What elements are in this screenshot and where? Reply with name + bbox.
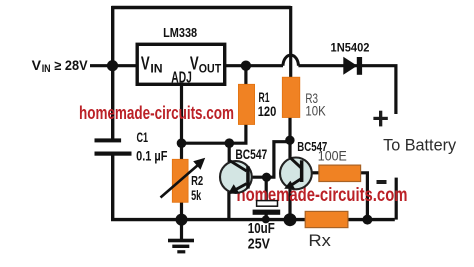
wire Q1 emitter drop (227, 191, 230, 220)
node VOUT-R1 junction (241, 60, 251, 70)
svg-text:ADJ: ADJ (171, 69, 192, 86)
diode 1N5402 triangle (343, 57, 357, 75)
transistor Q1 collector diagonal (229, 160, 247, 171)
wire top rail (112, 6, 291, 9)
wire R2 bottom stub (180, 201, 183, 220)
resistor R1 body (238, 84, 254, 124)
capacitor 10uF bottom plate (253, 210, 281, 215)
svg-text:0.1 µF: 0.1 µF (136, 149, 167, 164)
resistor R3 body (282, 77, 300, 117)
wire left rail below C1 (111, 155, 114, 221)
transistor Q2 base bar (300, 160, 304, 182)
node cap-rail junction (262, 215, 270, 223)
svg-text:≥ 28V: ≥ 28V (54, 58, 87, 73)
wire Q2 emitter drop (288, 188, 291, 220)
wire Q1 base node up to R3 node (L shape) (267, 142, 288, 178)
wire R1 top stub (244, 66, 247, 85)
IC box LM338 (137, 44, 225, 84)
wire 100E right hook down to rail (359, 173, 367, 220)
potentiometer R2 body (172, 159, 188, 202)
svg-text:homemade-circuits.com: homemade-circuits.com (79, 103, 234, 123)
wire R3 bottom to Q2 collector (288, 117, 291, 158)
wire VOUT to bump left (225, 64, 283, 67)
battery minus sign (377, 180, 387, 184)
transistor Q2 BC547 circle (280, 158, 312, 190)
potentiometer R2 arrow (161, 158, 206, 198)
svg-text:OUT: OUT (199, 63, 221, 75)
svg-text:IN: IN (150, 63, 162, 75)
transistor Q2 emitter diagonal with arrow (284, 179, 301, 189)
svg-text:Rx: Rx (308, 232, 331, 250)
wire cap 10uF top stub (265, 177, 268, 201)
wire Q2 base to 100E (312, 171, 320, 174)
wire bump right to diode corner and + terminal (298, 66, 396, 114)
svg-text:25V: 25V (248, 237, 270, 253)
wire VIN input stub (90, 64, 136, 67)
svg-text:120: 120 (258, 104, 277, 120)
wire Q1 collector vertical (228, 143, 231, 163)
wire Q1 base to node (248, 176, 267, 179)
svg-text:1N5402: 1N5402 (331, 41, 370, 54)
svg-text:100E: 100E (318, 148, 347, 163)
diode cathode bar (357, 57, 362, 75)
node Q2 emitter rail junction (284, 213, 297, 226)
transistor Q1 emitter diagonal with arrow (228, 184, 247, 195)
svg-text:10K: 10K (305, 104, 325, 119)
svg-text:IN: IN (42, 63, 51, 75)
resistor 100E body (319, 165, 361, 181)
wire bottom rail (111, 218, 395, 221)
svg-text:BC547: BC547 (235, 147, 267, 162)
battery plus sign (373, 117, 387, 120)
node ground junction (176, 214, 188, 226)
resistor Rx body (305, 211, 348, 227)
node R1-Q1 collector junction (225, 138, 235, 148)
svg-text:V: V (32, 57, 42, 73)
svg-text:C1: C1 (137, 130, 149, 145)
svg-text:V: V (141, 54, 150, 74)
wire ADJ node horizontal (182, 142, 230, 145)
svg-text:To Battery: To Battery (383, 137, 457, 155)
svg-text:LM338: LM338 (163, 25, 197, 40)
capacitor C1 top plate (95, 138, 122, 142)
wire ADJ pin drop (180, 86, 183, 143)
node ADJ-R2 junction (177, 138, 187, 148)
node R3-Q2 collector junction (285, 136, 294, 145)
svg-text:R2: R2 (191, 173, 203, 188)
transistor Q2 collector diagonal (290, 158, 301, 168)
ground symbol (168, 219, 194, 253)
wire R3 drop vertical from top rail (289, 6, 292, 78)
capacitor 10uF top plate outline (257, 201, 278, 207)
transistor Q1 base bar (246, 166, 250, 188)
svg-text:5k: 5k (191, 188, 201, 203)
wire hop bump over R3 drop (283, 55, 298, 66)
wire left rail upper vertical (111, 6, 114, 139)
wire minus terminal vertical (395, 178, 398, 220)
wire R2 top stub (180, 143, 183, 160)
capacitor C1 bottom plate (95, 152, 132, 156)
transistor Q1 BC547 circle (220, 161, 252, 193)
svg-text:10uF: 10uF (248, 221, 275, 237)
wire R1 bottom hook to ADJ node (229, 124, 246, 143)
node 100E-rail junction (362, 215, 372, 225)
wire cap 10uF bottom stub (265, 214, 268, 220)
node VIN junction (107, 60, 118, 71)
node Q1 base junction (262, 173, 271, 182)
